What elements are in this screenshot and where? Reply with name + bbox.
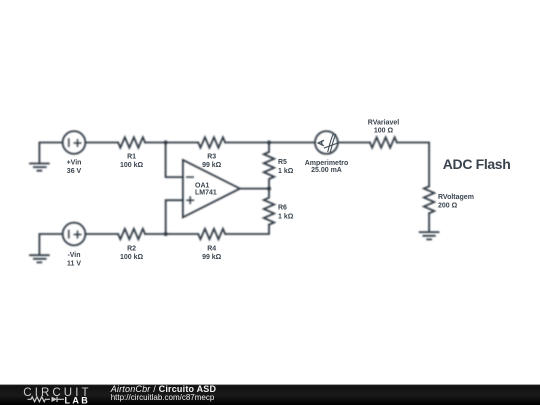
- svg-text:R3: R3: [207, 154, 216, 161]
- ground GND1: [30, 164, 49, 171]
- wire node B to ammeter: [269, 142, 315, 144]
- wire node C to R4: [166, 233, 199, 235]
- svg-text:25.00 mA: 25.00 mA: [311, 167, 342, 174]
- wire node A down to op-amp minus input: [166, 143, 183, 178]
- resistor R5 1k vertical: [264, 143, 274, 189]
- svg-text:RVariavel: RVariavel: [368, 119, 399, 126]
- label R2 100 kOhm: [120, 245, 144, 260]
- node A junction: [164, 140, 168, 144]
- svg-text:R2: R2: [127, 245, 136, 252]
- label R4 99 kOhm: [202, 245, 222, 260]
- svg-text:100 kΩ: 100 kΩ: [120, 162, 144, 169]
- wire RVariavel to corner down to RVoltagem: [397, 143, 429, 187]
- label R5 1 kOhm: [278, 159, 294, 175]
- ammeter A glyph and needle: [318, 134, 337, 153]
- wire ammeter to RVariavel: [338, 142, 370, 144]
- voltage source V2 -Vin 11V: [63, 223, 86, 246]
- svg-text:R5: R5: [278, 159, 287, 166]
- node D junction: [267, 187, 271, 191]
- wire R2 to node C: [145, 233, 166, 235]
- wire RVoltagem to ground: [428, 213, 430, 232]
- ground GND3: [420, 232, 439, 239]
- op-amp OA1: [183, 160, 240, 217]
- svg-text:11 V: 11 V: [67, 260, 81, 267]
- wire op-amp output to node D: [240, 188, 269, 190]
- label RVariavel 100 Ohm: [368, 119, 399, 134]
- svg-text:1 kΩ: 1 kΩ: [278, 168, 294, 175]
- wire V1 left to ground: [39, 143, 62, 164]
- label R1 100 kOhm: [120, 154, 144, 169]
- svg-text:200 Ω: 200 Ω: [438, 203, 458, 210]
- resistor R6 1k vertical: [264, 189, 274, 225]
- wire op-amp plus input down to node C: [166, 200, 183, 234]
- ammeter Amperimetro: [315, 131, 338, 154]
- svg-text:LAB: LAB: [65, 395, 91, 405]
- wire V2 to R2: [85, 233, 118, 235]
- node C junction: [164, 232, 168, 236]
- svg-text:-Vin: -Vin: [67, 252, 80, 259]
- logo resistor-diode symbol: [28, 397, 65, 402]
- svg-text:100 Ω: 100 Ω: [374, 128, 394, 135]
- resistor R4 99k: [198, 229, 225, 239]
- node B junction: [267, 140, 271, 144]
- label Amperimetro 25.00 mA: [305, 160, 349, 174]
- resistor R3 99k: [198, 137, 225, 147]
- svg-text:100 kΩ: 100 kΩ: [120, 254, 144, 261]
- voltage source V1 +Vin 36V: [63, 131, 86, 154]
- svg-text:+Vin: +Vin: [67, 160, 82, 167]
- svg-text:R1: R1: [127, 154, 136, 161]
- svg-text:LM741: LM741: [195, 190, 217, 197]
- wire V1 to R1: [85, 142, 118, 144]
- svg-text:RVoltagem: RVoltagem: [438, 194, 474, 201]
- ground GND2: [30, 255, 49, 262]
- wire R1 to node A: [145, 142, 166, 144]
- footer bar background: [0, 385, 540, 405]
- svg-text:99 kΩ: 99 kΩ: [202, 162, 222, 169]
- svg-text:R6: R6: [278, 205, 287, 212]
- svg-text:OA1: OA1: [195, 182, 210, 189]
- resistor RVariavel 100 Ohm: [370, 137, 397, 147]
- wire R4 to R6 bottom corner: [225, 225, 269, 234]
- label R6 1 kOhm: [278, 205, 294, 221]
- wire R3 to node B: [225, 142, 269, 144]
- label R3 99 kOhm: [202, 154, 222, 169]
- resistor RVoltagem 200 Ohm vertical: [424, 186, 434, 213]
- resistor R2 100k: [118, 229, 145, 239]
- label OA1 LM741: [195, 182, 217, 196]
- svg-text:99 kΩ: 99 kΩ: [202, 254, 222, 261]
- label RVoltagem 200 Ohm: [438, 194, 474, 210]
- svg-text:36 V: 36 V: [67, 168, 82, 175]
- svg-text:Amperimetro: Amperimetro: [305, 160, 349, 167]
- svg-text:1 kΩ: 1 kΩ: [278, 214, 294, 221]
- svg-text:ADC Flash: ADC Flash: [443, 156, 511, 172]
- wire V2 left to ground: [39, 234, 62, 255]
- svg-text:http://circuitlab.com/c87mecp: http://circuitlab.com/c87mecp: [111, 393, 215, 402]
- svg-text:R4: R4: [207, 245, 216, 252]
- label -Vin 11 V: [67, 252, 81, 267]
- wire node A to R3: [166, 142, 199, 144]
- resistor R1 100k: [118, 137, 145, 147]
- label +Vin 36 V: [67, 160, 82, 175]
